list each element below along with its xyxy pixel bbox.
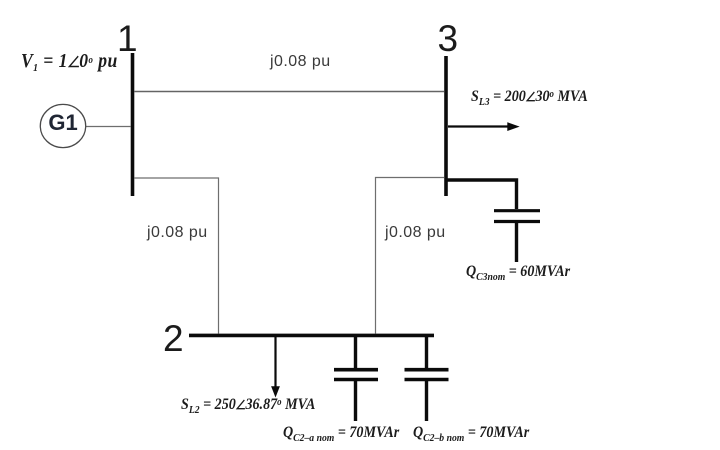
impedance label line 1-3 (270, 53, 331, 71)
load arrow at bus 3 (448, 125, 508, 127)
node label 2 (163, 320, 184, 357)
wire line 1-3 (134, 91, 445, 93)
node label 1 (117, 20, 138, 57)
bus 3 (444, 56, 448, 196)
wire generator stem (86, 126, 132, 128)
value label QC2-a-nom (283, 424, 399, 442)
capacitor C3 (494, 209, 540, 212)
generator G1 label (48, 110, 77, 136)
node label 3 (438, 20, 459, 57)
capacitor C2-a (354, 336, 357, 368)
value label V1 (21, 50, 118, 73)
impedance label line 3-2 (385, 224, 446, 242)
value label QC3nom (466, 263, 570, 281)
wire line 1-2 (134, 178, 219, 334)
value label QC2-b-nom (413, 424, 529, 442)
generator G1 circle (40, 104, 85, 147)
impedance label line 1-2 (147, 224, 208, 242)
bus 2 (189, 334, 434, 338)
value label SL3 (471, 88, 588, 106)
value label SL2 (181, 396, 315, 414)
bus 1 (131, 53, 135, 196)
load arrow at bus 2 (274, 337, 276, 387)
wire line 3-2 (376, 178, 445, 334)
capacitor C2-b (425, 336, 428, 368)
capacitor C3 feeder wire (447, 180, 517, 209)
